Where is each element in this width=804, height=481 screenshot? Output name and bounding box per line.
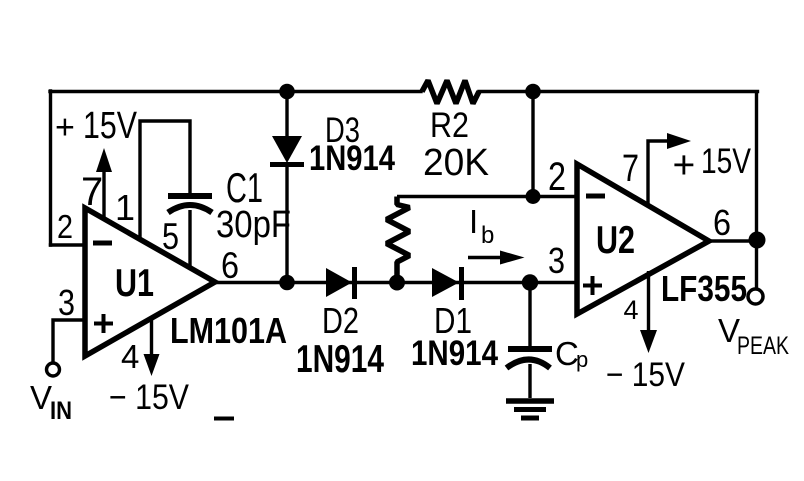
svg-text:3: 3 — [548, 240, 565, 281]
label Ib — [469, 203, 494, 249]
svg-text:U2: U2 — [596, 219, 635, 262]
U2 minus input sign — [586, 194, 605, 199]
svg-text:− 15V: − 15V — [109, 378, 190, 417]
svg-text:6: 6 — [713, 202, 731, 243]
U1 minus input sign — [93, 241, 112, 246]
terminal Vin — [47, 363, 60, 376]
svg-text:D2: D2 — [322, 300, 359, 341]
stray mark artifact — [214, 417, 234, 421]
U2 plus input sign — [583, 276, 602, 295]
svg-text:+: + — [673, 144, 696, 187]
diode D3 branch wire upper — [285, 92, 288, 138]
diode D1 — [432, 268, 459, 297]
wire D3 lower — [285, 167, 288, 283]
wire Vin stub — [53, 320, 85, 362]
node U1 out / D3 — [279, 275, 295, 291]
resistor (bias) vertical — [387, 197, 410, 283]
U1 plus input sign — [94, 314, 113, 333]
terminal Vpeak — [748, 289, 763, 304]
U2 pin7 wire — [648, 141, 669, 205]
capacitor Cp — [507, 349, 553, 368]
svg-text:4: 4 — [624, 295, 639, 325]
wire U1 pin2 stub — [51, 243, 86, 246]
svg-text:b: b — [481, 222, 494, 249]
svg-text:1N914: 1N914 — [411, 334, 498, 373]
svg-text:LM101A: LM101A — [170, 310, 287, 351]
op-amp U2 — [577, 164, 709, 314]
svg-text:− 15V: − 15V — [606, 356, 685, 394]
svg-text:20K: 20K — [423, 142, 489, 184]
wire top rail left segment — [50, 90, 421, 93]
svg-text:1N914: 1N914 — [309, 139, 395, 178]
label Cp — [555, 335, 588, 372]
wire R2 right vertical — [531, 92, 534, 197]
U2 pin4 arrow — [647, 271, 650, 332]
node junction top D3 — [279, 84, 295, 100]
wire U2 out — [709, 239, 756, 242]
svg-text:7: 7 — [81, 170, 103, 214]
resistor R2 — [422, 81, 479, 104]
wire C1 to pin5 — [188, 210, 191, 268]
svg-text:PEAK: PEAK — [737, 332, 789, 360]
wire Cp top — [528, 282, 531, 346]
U1 pin7 +15V arrow — [102, 170, 105, 218]
U1 pin4 -15V arrow — [150, 320, 153, 354]
svg-text:1N914: 1N914 — [296, 338, 384, 381]
node D2/R junction — [389, 275, 405, 291]
svg-text:2: 2 — [548, 155, 566, 199]
node pin3 junction — [522, 274, 538, 290]
svg-text:6: 6 — [221, 245, 239, 286]
svg-text:15V: 15V — [701, 142, 752, 181]
svg-text:3: 3 — [58, 282, 75, 323]
wire Cp to ground — [528, 364, 531, 398]
svg-text:U1: U1 — [115, 262, 154, 305]
node pin2 junction — [526, 189, 541, 204]
node R2/top rail — [525, 84, 541, 100]
diode D2 — [326, 268, 352, 297]
svg-text:V: V — [30, 379, 52, 416]
wire C1 bridge pin1 to cap — [140, 121, 190, 240]
wire top rail right segment — [479, 90, 758, 93]
label VPEAK — [718, 312, 789, 360]
svg-text:15V: 15V — [83, 105, 138, 147]
wire left vertical feedback — [49, 91, 52, 245]
svg-text:1: 1 — [115, 187, 135, 228]
Ib arrow — [468, 256, 502, 259]
wire right vertical — [755, 91, 758, 289]
svg-text:4: 4 — [121, 338, 139, 375]
svg-text:LF355: LF355 — [661, 268, 747, 309]
svg-text:IN: IN — [50, 397, 72, 425]
label VIN — [30, 379, 72, 425]
ground — [506, 401, 554, 418]
svg-text:p: p — [576, 347, 588, 372]
svg-text:R2: R2 — [430, 105, 469, 145]
capacitor C1 — [168, 196, 212, 213]
svg-text:2: 2 — [57, 208, 73, 245]
svg-text:I: I — [469, 203, 478, 240]
svg-text:5: 5 — [162, 216, 179, 257]
svg-text:+: + — [55, 109, 75, 147]
svg-text:7: 7 — [622, 148, 639, 190]
wire main output row — [213, 281, 577, 284]
op-amp U1 — [85, 208, 215, 356]
node output — [749, 232, 766, 249]
svg-text:30pF: 30pF — [216, 204, 291, 246]
diode D3 — [272, 136, 302, 163]
wire resistor top to U2 pin2 — [397, 195, 577, 198]
